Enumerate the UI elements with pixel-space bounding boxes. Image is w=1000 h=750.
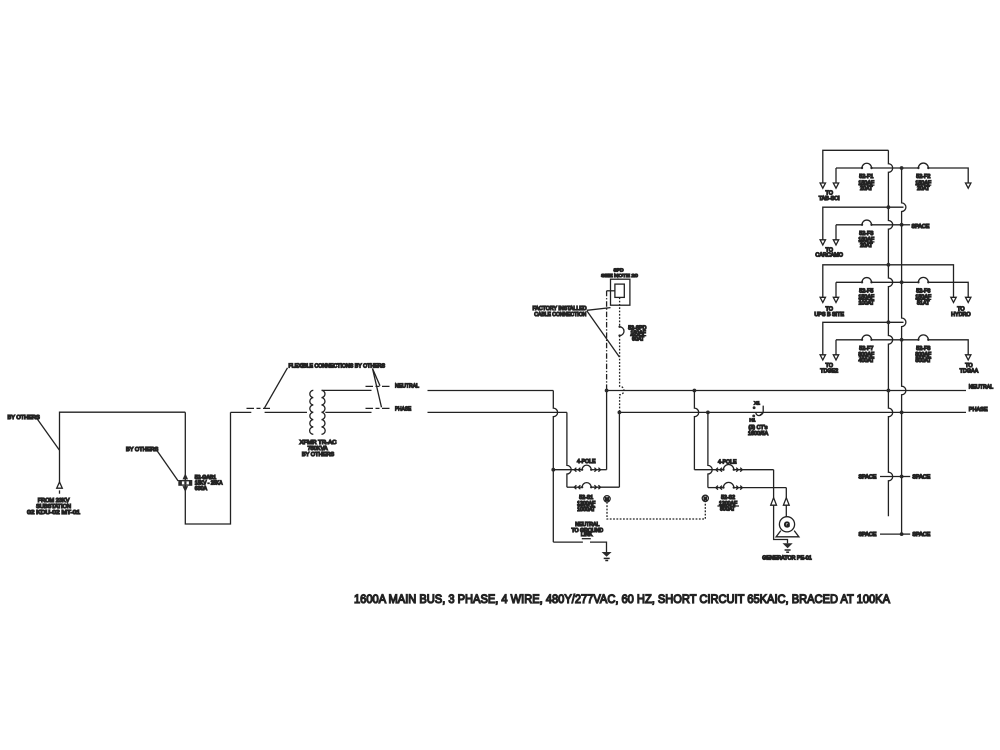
svg-text:FLEXIBLE CONNECTIONS BY OTHERS: FLEXIBLE CONNECTIONS BY OTHERS xyxy=(289,363,386,369)
junction xyxy=(887,205,891,209)
meter M xyxy=(604,496,610,502)
feeder arrow xyxy=(966,183,971,188)
breaker 52-F7 xyxy=(836,335,918,341)
junction xyxy=(900,338,904,342)
svg-text:52-F6: 52-F6 xyxy=(916,289,930,295)
ground link (removable) xyxy=(582,538,591,540)
SPD inner box xyxy=(615,284,624,297)
junction xyxy=(605,389,609,393)
junction: phase riser to phase bus xyxy=(900,411,904,415)
wire: 52-S2 neutral drop with hop over phase xyxy=(694,391,698,470)
leader to SPD box xyxy=(587,308,611,311)
svg-text:20AT: 20AT xyxy=(917,186,930,192)
breaker 52-F6 xyxy=(917,277,968,297)
leader to neutral flex xyxy=(373,369,381,386)
wire: feeder F7 neutral xyxy=(823,322,904,355)
phase bus (left span) xyxy=(428,411,567,413)
svg-text:1600/5A: 1600/5A xyxy=(748,431,768,437)
wire: 52-S1 neutral pole return to neutral bus xyxy=(606,391,608,470)
phase riser (right bus) with hops xyxy=(902,168,906,536)
svg-text:HYDRO: HYDRO xyxy=(951,312,970,318)
neutral riser (left bus) with hops xyxy=(888,150,892,516)
breaker 52-F1 xyxy=(836,163,918,169)
svg-text:SPD: SPD xyxy=(613,268,624,274)
flexible connection offset dashes xyxy=(247,407,271,409)
wire: SPD neutral stub xyxy=(607,290,615,292)
phase bus (main span) xyxy=(619,411,966,413)
wire: fuse riser down xyxy=(185,412,230,524)
CT window loop xyxy=(756,412,762,415)
svg-text:SPACE: SPACE xyxy=(859,532,877,538)
svg-text:52-F2: 52-F2 xyxy=(916,174,930,180)
svg-text:H1: H1 xyxy=(749,417,755,423)
svg-text:52-F8: 52-F8 xyxy=(916,346,930,352)
svg-text:BY OTHERS: BY OTHERS xyxy=(302,452,334,458)
junction xyxy=(900,166,904,170)
svg-text:52-F7: 52-F7 xyxy=(859,346,873,352)
wire: generator phase lead xyxy=(785,488,787,498)
wire: feeder F1 neutral xyxy=(823,150,889,183)
svg-text:SPACE: SPACE xyxy=(859,475,877,481)
junction xyxy=(900,223,904,227)
breaker 52-S1 neutral pole (drawout) xyxy=(553,465,606,472)
svg-text:NEUTRAL: NEUTRAL xyxy=(395,384,419,390)
connection arrow (open) xyxy=(783,498,789,506)
svg-text:X1: X1 xyxy=(754,401,760,407)
wire: from utility arrow up and right to fuse riser xyxy=(60,412,186,482)
dashed meter link M to N xyxy=(607,502,705,520)
wire: feeder F7 drop xyxy=(835,340,837,355)
svg-text:SPACE: SPACE xyxy=(912,532,930,538)
flexible connection (primary): wire with gap xyxy=(231,411,252,413)
feeder arrow xyxy=(833,355,838,360)
meter N xyxy=(702,495,708,501)
wire: feeder F3 drop xyxy=(835,225,837,240)
svg-text:BY OTHERS: BY OTHERS xyxy=(8,415,40,421)
svg-text:PHASE: PHASE xyxy=(969,407,988,413)
svg-text:TDGAA: TDGAA xyxy=(960,369,979,375)
flexible connection dashes (neutral) xyxy=(366,385,391,387)
svg-text:SEE NOTE 20: SEE NOTE 20 xyxy=(601,273,638,279)
wire: feeder F5/F6 neutral xyxy=(823,265,954,298)
feeder arrow xyxy=(820,240,825,245)
wire: space row 1 xyxy=(880,476,902,478)
flexible connection dashes (phase) xyxy=(366,407,391,409)
wire: secondary neutral lead xyxy=(322,389,372,391)
CT secondary hook xyxy=(760,406,763,415)
svg-text:800AT: 800AT xyxy=(720,507,736,513)
wire: space stub xyxy=(902,533,911,535)
wire: space stub xyxy=(902,224,911,226)
svg-text:4-POLE: 4-POLE xyxy=(718,459,737,465)
breaker 52-SPD xyxy=(618,326,624,337)
ground symbol xyxy=(602,552,612,561)
CT X1 polarity dot xyxy=(753,406,756,409)
svg-text:SPACE: SPACE xyxy=(912,224,930,230)
wire: feeder F5 drop xyxy=(835,282,837,297)
svg-text:G: G xyxy=(784,522,789,529)
wire: neutral to ground link line with gap xyxy=(553,541,583,543)
svg-text:1600A MAIN BUS, 3 PHASE, 4 WIR: 1600A MAIN BUS, 3 PHASE, 4 WIRE, 480Y/27… xyxy=(354,592,891,606)
CT H1 polarity dot xyxy=(752,414,755,417)
leader to phase flex xyxy=(373,369,382,408)
junction xyxy=(706,411,710,415)
svg-text:TDGE2: TDGE2 xyxy=(820,369,838,375)
fuse switch 52-GAB1 (drawout) xyxy=(178,473,192,492)
wire: generator neutral lead xyxy=(773,470,775,498)
SPD neutral cable (dash-dot) to neutral bus xyxy=(606,291,608,391)
SPD phase cable (dotted) upper xyxy=(619,297,621,326)
svg-text:N: N xyxy=(704,496,707,501)
feeder arrow xyxy=(820,297,825,302)
transformer XFMR TR-AC primary coil xyxy=(310,390,314,434)
svg-text:CABLE CONNECTION: CABLE CONNECTION xyxy=(534,312,586,318)
svg-text:20AT: 20AT xyxy=(860,186,873,192)
svg-text:02 KDU-02 MT-01: 02 KDU-02 MT-01 xyxy=(27,510,80,516)
junction xyxy=(693,389,697,393)
junction xyxy=(551,468,555,472)
svg-text:SPACE: SPACE xyxy=(912,475,930,481)
breaker 52-S1 phase poles (drawout) xyxy=(567,483,620,490)
feeder arrow xyxy=(820,183,825,188)
wire: phase lead to generator xyxy=(785,505,787,517)
wire: feeder F3 neutral xyxy=(823,207,904,240)
svg-text:NEUTRAL: NEUTRAL xyxy=(969,385,993,391)
feeder arrow xyxy=(833,297,838,302)
svg-text:51AT: 51AT xyxy=(917,301,930,307)
leader to SPD cable xyxy=(587,311,620,357)
junction xyxy=(900,280,904,284)
generator G circle xyxy=(779,517,794,532)
leader xyxy=(157,451,178,481)
svg-text:100AT: 100AT xyxy=(859,301,875,307)
wire: space stub xyxy=(902,476,911,478)
svg-text:4-POLE: 4-POLE xyxy=(577,459,596,465)
svg-text:CARCAMO: CARCAMO xyxy=(815,253,843,259)
svg-text:400AT: 400AT xyxy=(859,358,875,364)
breaker 52-F2 xyxy=(917,163,968,183)
svg-text:BY OTHERS: BY OTHERS xyxy=(126,447,158,453)
feeder arrow xyxy=(951,297,956,302)
svg-text:TAB-SCI: TAB-SCI xyxy=(819,196,840,202)
wire: 52-S2 phase drop with hop over neutral pole row xyxy=(708,412,712,487)
feeder arrow xyxy=(833,240,838,245)
generator ground symbol xyxy=(783,543,793,552)
wire: 52-S1 neutral drop with hop over phase xyxy=(553,391,557,543)
leader to primary flex xyxy=(265,368,288,408)
neutral bus (left span) xyxy=(428,390,554,392)
svg-text:UPS B SITE: UPS B SITE xyxy=(814,312,844,318)
junction xyxy=(887,320,891,324)
breaker 52-F5 xyxy=(836,278,918,284)
svg-text:PHASE: PHASE xyxy=(395,407,411,413)
wire: secondary phase lead xyxy=(325,411,371,413)
svg-text:52-F5: 52-F5 xyxy=(859,289,873,295)
breaker 52-F8 xyxy=(917,335,968,355)
generator pedestal xyxy=(776,531,799,537)
svg-text:GENERATOR PE-01: GENERATOR PE-01 xyxy=(762,555,811,561)
svg-text:52-F3: 52-F3 xyxy=(859,231,873,237)
feeder arrow xyxy=(833,183,838,188)
feeder arrow xyxy=(966,355,971,360)
junction xyxy=(900,475,904,479)
junction xyxy=(887,263,891,267)
svg-text:52-F1: 52-F1 xyxy=(859,174,873,180)
svg-text:1000AT: 1000AT xyxy=(577,507,596,513)
junction: neutral riser to neutral bus xyxy=(887,389,891,393)
svg-text:500AT: 500AT xyxy=(916,358,932,364)
feeder arrow xyxy=(820,355,825,360)
breaker 52-S2 phase poles (drawout) xyxy=(708,482,786,489)
breaker 52-S2 neutral pole (drawout) xyxy=(694,465,773,472)
leader xyxy=(37,419,59,450)
connection arrow (open) xyxy=(771,498,777,506)
neutral bus (main span) xyxy=(607,390,966,392)
svg-text:M: M xyxy=(605,496,609,501)
wire: 52-S1 phase drop with hop over neutral pole row xyxy=(567,412,571,487)
svg-text:20AT: 20AT xyxy=(860,243,873,249)
svg-text:LINK: LINK xyxy=(581,532,593,538)
feeder arrow xyxy=(966,297,971,302)
breaker 52-F3 xyxy=(836,220,902,226)
svg-text:60AT: 60AT xyxy=(632,336,645,342)
junction xyxy=(900,532,904,536)
SPD enclosure box xyxy=(611,279,630,305)
wire: space row 2 xyxy=(880,533,902,535)
wire: 52-S1 phase return to phase bus xyxy=(618,412,620,487)
utility source arrow (open) xyxy=(57,482,63,488)
junction xyxy=(618,411,622,415)
SPD phase cable (dotted) lower with hop over neutral xyxy=(620,336,624,413)
wire: feeder F1 drop xyxy=(835,168,837,183)
wire: neutral lead to generator ground xyxy=(774,505,788,543)
svg-text:630A: 630A xyxy=(195,486,208,492)
transformer secondary coil xyxy=(322,390,326,434)
